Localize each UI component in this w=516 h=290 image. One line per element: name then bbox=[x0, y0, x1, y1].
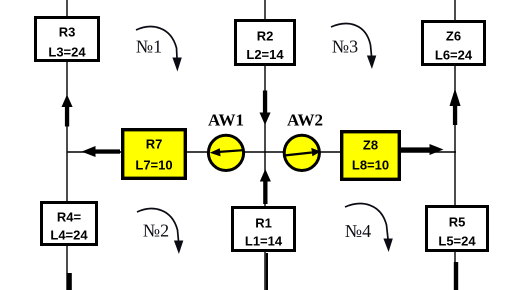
svg-text:R4=: R4= bbox=[57, 210, 82, 225]
svg-text:R1: R1 bbox=[255, 216, 272, 231]
svg-text:№4: №4 bbox=[345, 221, 371, 241]
svg-text:№2: №2 bbox=[143, 221, 169, 241]
svg-text:L4=24: L4=24 bbox=[50, 228, 88, 243]
svg-text:L1=14: L1=14 bbox=[245, 234, 283, 249]
svg-text:№1: №1 bbox=[136, 37, 162, 57]
svg-text:R5: R5 bbox=[449, 215, 466, 230]
svg-text:L8=10: L8=10 bbox=[352, 158, 389, 173]
svg-text:R3: R3 bbox=[59, 25, 76, 40]
svg-text:L5=24: L5=24 bbox=[438, 234, 476, 249]
svg-text:R2: R2 bbox=[257, 29, 274, 44]
svg-text:R7: R7 bbox=[146, 137, 163, 152]
svg-text:L6=24: L6=24 bbox=[435, 48, 473, 63]
svg-text:Z6: Z6 bbox=[446, 29, 461, 44]
svg-text:№3: №3 bbox=[332, 37, 358, 57]
svg-text:L7=10: L7=10 bbox=[135, 158, 172, 173]
svg-text:Z8: Z8 bbox=[363, 138, 378, 153]
svg-text:AW1: AW1 bbox=[208, 111, 244, 130]
svg-text:L3=24: L3=24 bbox=[48, 45, 86, 60]
svg-text:L2=14: L2=14 bbox=[246, 47, 284, 62]
svg-text:AW2: AW2 bbox=[287, 111, 323, 130]
